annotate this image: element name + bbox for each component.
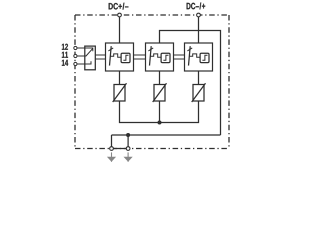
wire RV2 bottom to Y-node — [159, 101, 161, 123]
wire terminal 14 stub — [75, 63, 84, 65]
varistor RV1 — [113, 83, 127, 102]
label terminal 12 — [62, 44, 68, 50]
terminal PE 1 — [110, 147, 114, 151]
terminal DC+/- — [118, 13, 122, 17]
terminal 14 — [74, 62, 77, 65]
disconnector with SCI device U2 — [146, 43, 174, 71]
label terminal 11 — [62, 52, 68, 58]
label DC+/- — [109, 3, 129, 10]
label DC-/+ — [187, 3, 206, 10]
wire terminal 12 stub — [75, 47, 84, 49]
disconnector with SCI device U1 — [106, 43, 134, 71]
wire PE bus bottom — [112, 134, 221, 136]
signal link U2 to U3 (double line) — [170, 55, 189, 59]
wire Y-node bus (RV1 bottom to RV3 bottom) — [120, 101, 199, 123]
varistor RV3 — [192, 83, 206, 102]
wire U2 bottom to varistor RV2 — [159, 71, 161, 85]
wire U2 top to PE bus (up, right, down) — [160, 31, 221, 136]
wire terminal 11 stub — [75, 55, 84, 57]
wire between PE terminals — [112, 148, 129, 150]
wire PE terminal 1 stub — [111, 135, 113, 149]
terminal 12 — [74, 46, 77, 49]
signal link FM contact to U1 (double line) — [95, 55, 110, 59]
enclosure border left (dash-dot) — [74, 15, 76, 149]
terminal 11 — [74, 54, 77, 57]
wire U3 bottom to varistor RV3 — [198, 71, 200, 85]
wire PE terminal 2 stub — [127, 135, 129, 149]
terminal PE 2 — [126, 147, 130, 151]
signal link U1 to U2 (double line) — [130, 55, 150, 59]
wire DC+ terminal to disconnector U1 — [119, 15, 121, 43]
wire DC- terminal to disconnector U3 — [198, 15, 200, 43]
enclosure border bottom (dash-dot) — [75, 148, 229, 150]
junction Y-node — [158, 121, 162, 125]
enclosure border top (dash-dot) — [75, 14, 229, 16]
ground symbol 1 — [108, 152, 115, 161]
wire U1 bottom to varistor RV1 — [119, 71, 121, 85]
enclosure border right (dash-dot) — [228, 15, 230, 149]
terminal DC-/+ — [197, 13, 201, 17]
remote signalling changeover contact K1 — [85, 46, 96, 70]
ground symbol 2 — [124, 152, 131, 161]
label terminal 14 — [62, 60, 68, 66]
varistor RV2 — [153, 83, 167, 102]
junction PE bus / terminal 2 — [126, 133, 130, 137]
disconnector with SCI device U3 — [185, 43, 213, 71]
